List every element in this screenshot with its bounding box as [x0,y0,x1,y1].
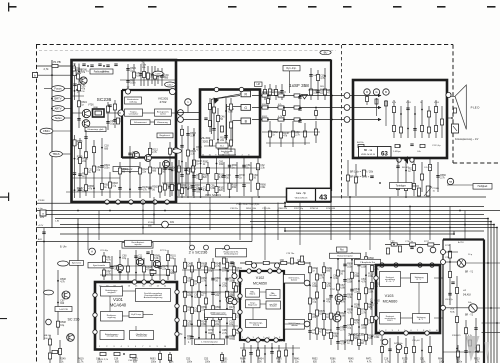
svg-text:A-718: A-718 [458,241,464,244]
svg-text:C25: C25 [168,359,173,361]
oval C317 [165,82,176,87]
svg-text:Schwarzwert: Schwarzwert [134,121,147,124]
component column DE-4 [205,262,207,340]
function box Reaktanzregelung [101,312,123,322]
svg-text:C18 22n: C18 22n [230,208,239,210]
component cluster F top band [385,244,440,246]
svg-text:R952: R952 [312,359,318,361]
svg-text:Klemmung: Klemmung [157,122,168,124]
component cluster left of E [221,352,223,363]
svg-text:R323: R323 [474,359,480,361]
bus jog 1 [284,203,286,207]
svg-text:150k: 150k [374,337,380,339]
svg-text:390R: 390R [320,89,325,91]
component cluster A corner [73,66,76,71]
svg-text:Klemmimp. glob: Klemmimp. glob [88,129,104,131]
component cluster below B [164,160,166,196]
wire left lower vertical [43,228,45,340]
svg-text:R311: R311 [262,104,268,106]
svg-text:P LE D: P LE D [471,106,480,110]
svg-text:C18 µ10: C18 µ10 [412,340,420,342]
label box Helligkeit [473,184,492,190]
component cluster A top-left [74,64,76,101]
IC block output stage [443,238,484,240]
component cluster A mid [107,102,109,130]
capacitor pair left margin [42,231,45,233]
component column DE-8 [233,262,235,340]
amplifier box B [241,118,251,124]
svg-text:Matrix: Matrix [250,293,257,296]
component cluster A bottom [119,162,121,198]
border tick marks top [8,6,17,8]
svg-text:C53: C53 [204,359,209,361]
svg-text:R8 1,2k: R8 1,2k [278,341,286,343]
svg-text:L58 4,7µ: L58 4,7µ [445,299,454,301]
function box Verzoegerung [246,320,267,328]
svg-text:(3xSAY32): (3xSAY32) [370,298,373,310]
svg-text:MCA660: MCA660 [383,300,398,304]
svg-text:1xSF 358: 1xSF 358 [289,83,309,88]
component cluster A lower-left [74,135,76,198]
svg-text:FB41: FB41 [43,129,50,133]
svg-text:R175: R175 [402,359,408,361]
svg-text:R767 10µ: R767 10µ [294,208,304,210]
svg-text:R - G - Y: R - G - Y [386,281,395,283]
function box Verzoegerung R-Y [411,274,428,283]
wire gap vertical [187,105,189,112]
svg-text:R360 820: R360 820 [278,208,288,210]
node pins G left [441,250,446,255]
amplifier box R [241,91,251,97]
svg-text:V101: V101 [113,297,123,302]
svg-text:C81: C81 [420,359,425,361]
terminal oval BRTV [52,96,65,102]
svg-text:C60: C60 [280,260,285,262]
IC block V103 MCA660 [376,265,440,333]
wire A-B link1 [176,112,200,114]
svg-text:CYBD 7096 P7096 (P)96: CYBD 7096 P7096 (P)96 [236,204,260,206]
component cluster above E [240,262,310,264]
wire C interior B [353,119,381,121]
component cluster below C [397,158,399,196]
svg-text:63: 63 [381,151,388,158]
wire loops box B [210,99,212,134]
node pins E top [247,269,251,273]
svg-text:Austastverzögerung: Austastverzögerung [144,296,163,299]
node circle G line [344,105,350,111]
resistor P1-PB 2,7k [52,64,58,67]
IC block VIC301 sub-block [122,89,176,91]
svg-text:3201: 3201 [202,140,209,144]
node circle L1 [185,99,192,106]
component group G line [262,106,268,109]
node oval lower-left [44,290,54,295]
svg-text:10µ: 10µ [110,124,115,126]
svg-text:10µ: 10µ [112,186,117,188]
svg-text:1. Klemmimpulse: 1. Klemmimpulse [201,341,219,343]
amplifier box Kontrasteinstellung [125,97,142,104]
label box Regenerierte [216,249,247,257]
svg-text:R-B-Y: R-B-Y [387,320,393,322]
svg-text:BR - Y1: BR - Y1 [465,272,474,274]
svg-text:150k: 150k [368,291,374,293]
transistor EF upper [335,294,343,302]
svg-text:verstärker: verstärker [129,112,139,115]
svg-text:+12V: +12V [38,225,44,227]
function box H-V Schalter [266,301,281,309]
component small right of C [446,92,451,97]
potentiometer P7080 [426,186,430,196]
svg-text:Tonträger: Tonträger [396,184,406,187]
component column EF-3 [351,252,353,345]
svg-text:impulse: impulse [135,244,143,246]
function box 64us [246,300,261,308]
bus line 10 [60,233,454,235]
svg-text:R545: R545 [348,359,354,361]
function box Betriebsspg-vergleich [101,287,123,297]
svg-text:10µ: 10µ [60,325,65,327]
svg-text:2,7k: 2,7k [44,67,50,71]
node pins D top edge [132,280,136,284]
wire thick top rail [72,59,332,61]
diode circle D31 [162,221,169,228]
svg-text:D31: D31 [170,222,175,224]
junction dots buses [77,227,79,229]
component column DE-7 [226,258,228,345]
section divider dashed [341,45,343,200]
transistor G lower [469,304,477,312]
svg-text:43: 43 [319,192,327,201]
svg-text:P7098: P7098 [38,200,45,202]
svg-text:R619: R619 [78,359,84,361]
svg-text:R717: R717 [424,241,430,243]
junction left [51,74,53,76]
node pins F top [380,263,384,267]
component column EF-2 [344,258,346,350]
svg-text:150k: 150k [260,187,266,189]
function box Phasenvergleich [130,331,154,340]
svg-text:MCA640: MCA640 [110,303,127,308]
node circle pin 27 [125,89,130,94]
svg-text:stellung: stellung [129,100,137,103]
svg-text:R101: R101 [222,359,228,361]
component cluster right of E [309,262,311,340]
terminal oval ARTV [52,106,65,112]
amplifier box G [241,105,251,111]
svg-text:Horizont.Impulse: Horizont.Impulse [337,255,353,258]
component column DE-2 [191,262,193,345]
svg-text:Rot: Rot [340,248,344,251]
node circle pin row1 [178,110,184,116]
svg-text:Gate - 5p: Gate - 5p [296,192,307,195]
svg-text:Vertikalablenkung: Vertikalablenkung [211,313,227,316]
svg-text:V103: V103 [385,294,394,298]
IC block V101 MCA640 [95,282,177,350]
component column DE-5 [212,258,214,345]
IC small dark block RB8 [93,109,105,117]
wire D interior links [123,290,136,292]
svg-text:MCA650: MCA650 [253,282,267,286]
svg-text:B4-5Ta: B4-5Ta [357,142,364,144]
bus line 1 [36,202,286,204]
function box PAL-Schalter [266,290,280,299]
connector rect left margin [40,210,46,216]
svg-text:R: R [366,90,368,94]
svg-text:C317: C317 [167,85,173,87]
svg-text:R118 470: R118 470 [452,335,461,337]
wire left stub1 [44,88,52,90]
label box LM0 [255,82,263,86]
function box H-uP-Loop [129,312,143,318]
svg-text:VER6.2b-V3.30: VER6.2b-V3.30 [361,154,376,156]
component cluster top mid [143,63,145,86]
wire A2 row2 [150,121,155,123]
svg-text:R656: R656 [276,359,282,361]
node pins A bottom edge [105,200,109,204]
svg-text:C74 1,4µ: C74 1,4µ [432,145,441,147]
wire rows DE [182,269,238,271]
svg-text:10µ: 10µ [96,170,101,172]
wire F to G links [440,277,443,279]
node pins B top edge [214,87,218,91]
function box Impulsaufbereitung [136,289,171,302]
svg-text:RG 67k: RG 67k [402,167,410,169]
svg-text:R - Y: R - Y [417,279,422,281]
terminal oval Tiefen [52,115,65,121]
svg-text:R4n: R4n [468,302,472,304]
svg-text:R730 680: R730 680 [326,208,336,210]
svg-text:C4 47n: C4 47n [424,167,432,169]
terminal oval TBAS [50,151,63,157]
svg-text:BRTV: BRTV [54,97,61,101]
svg-text:R471: R471 [366,359,372,361]
svg-text:R312: R312 [262,116,268,118]
svg-text:R989: R989 [132,359,138,361]
svg-text:B - Y: B - Y [419,319,424,321]
svg-text:Begrenzer: Begrenzer [248,304,258,306]
svg-text:R47 100n: R47 100n [394,343,403,345]
svg-text:100n: 100n [160,77,166,79]
svg-text:Schalter: Schalter [270,305,278,308]
type box BR-1a 63 [359,147,392,158]
node circles DE column tops [190,245,195,250]
svg-text:Synchronide: Synchronide [93,264,106,267]
component column DE-6 [219,262,221,340]
component column EF-5 [365,252,367,345]
svg-text:R434: R434 [258,359,264,361]
bus line 9 [285,230,484,232]
terminal oval Focus [52,86,65,92]
component column EF-1 [337,252,339,350]
amplifier box Bezugswertwerter [155,109,172,116]
wire C interior G [353,107,381,109]
IC block VIL302 RGB stage [200,90,260,158]
label box Farbtongamma [90,69,113,74]
svg-text:C32: C32 [390,241,395,243]
svg-text:R804: R804 [240,359,246,361]
transistor bottom-left [67,334,75,342]
svg-text:R841: R841 [294,359,300,361]
component cluster above D [103,252,105,280]
wire rail 197 [176,196,287,198]
svg-text:C18: C18 [384,359,389,361]
svg-text:dulator: dulator [291,279,298,282]
node pin C bottom [397,158,401,162]
node circles RGB top labels [364,89,370,95]
sheet border dashed left [36,45,38,363]
svg-text:R730 56: R730 56 [310,208,319,210]
label box Tontraeger [390,183,413,189]
svg-text:HA: HA [449,181,453,184]
transistor DE [226,296,234,304]
svg-text:3 x SC236: 3 x SC236 [348,333,364,337]
wire A2 row1 [106,112,121,114]
svg-text:verzögerung: verzögerung [106,336,117,338]
node pins D right edge [175,290,179,294]
label box Bildstoer [113,167,139,172]
component cluster below D [100,352,106,355]
sheet border dashed right upper [452,45,454,164]
transistor G upper [457,259,465,267]
type box Gate-5p 43 [287,188,332,201]
shadow wedge bottom-right [466,336,480,362]
function box IF-Demod-2 [285,320,305,330]
bus jog 3 [453,231,455,234]
sheet border dashed stub right [453,162,500,164]
node circle A2 input [118,110,124,116]
svg-text:1-690µs: 1-690µs [393,151,401,153]
component cluster below RGB lines [269,121,271,147]
node pins F left [374,276,378,280]
IC block SC236 luminance stage [72,60,177,202]
wire right margin stubs [484,262,500,264]
svg-text:KDA: KDA [450,311,455,314]
svg-text:vergleich: vergleich [107,291,116,294]
svg-text:C297: C297 [155,74,161,76]
wire row below B [162,167,260,169]
label box Klemmimpulse [195,339,225,344]
svg-text:G: G [375,90,377,94]
function box PAL-Matrix [246,289,260,298]
svg-text:Fokusspannung ~ 1/V: Fokusspannung ~ 1/V [455,138,479,141]
terminal oval BU at rail corner [320,50,331,54]
svg-text:10µ: 10µ [347,328,352,330]
component cluster box B interior [209,98,211,132]
label box Dyn-Imp [283,66,300,71]
label box Betriebsspannung [122,243,153,249]
svg-text:V705: V705 [406,102,412,104]
function box IF-Demod-1 [284,275,305,284]
label box Burst-Austast [125,240,152,246]
svg-text:V737: V737 [330,289,336,291]
bus line 6 [250,221,491,223]
amplifier box Schwarzwert [131,120,151,125]
junction dots rail197 [200,196,202,198]
svg-text:P1 PB: P1 PB [53,60,61,64]
svg-text:10µ: 10µ [122,258,127,260]
svg-text:R310: R310 [262,92,268,94]
svg-text:SC 236: SC 236 [68,318,80,322]
inner faint dashed line [39,49,336,51]
node circle R line [344,93,350,99]
svg-text:1xSC239: 1xSC239 [59,309,68,311]
label box Klemmimp [85,127,106,132]
component box LED [452,124,459,133]
component cluster below F [381,336,383,363]
svg-text:B. Uhr: B. Uhr [60,246,67,249]
component cluster SF358 [264,85,266,100]
component drops RGB [267,96,269,108]
svg-text:R693: R693 [150,359,156,361]
svg-text:Schalter: Schalter [269,294,277,297]
svg-text:R77 1k: R77 1k [160,250,168,252]
bus line 5 [55,218,488,220]
svg-text:10µ: 10µ [229,324,234,326]
wire arrow into R amp [211,94,241,100]
vertical stubs through buses [77,219,79,363]
svg-text:VID2.05/60.05: VID2.05/60.05 [295,198,309,200]
node pins F bottom [380,331,384,335]
component cluster A top [127,64,129,88]
bus line 7 [60,224,494,226]
ground symbol SF [302,95,308,100]
svg-text:10µ: 10µ [170,258,175,260]
component extra box B [230,98,232,152]
svg-text:R656 150k: R656 150k [246,208,257,210]
component extra above D [117,265,124,272]
label box Sandcastle [88,263,110,268]
svg-text:Tiefen: Tiefen [54,116,62,120]
component column DE-3 [198,258,200,345]
transistor EF lower [333,314,341,322]
svg-text:ARTV: ARTV [54,107,61,111]
svg-text:C46: C46 [96,359,101,361]
svg-text:+A: +A [463,289,466,292]
component row C bottom [358,144,364,147]
wire G signal line [252,107,353,109]
bus line 2 [285,206,484,208]
svg-text:R841: R841 [438,359,444,361]
border tick mark left lower [0,318,7,319]
node pins E bottom [246,338,250,342]
svg-text:werter: werter [160,112,166,115]
svg-text:10µ: 10µ [312,302,317,304]
svg-text:TBAS: TBAS [52,152,59,156]
svg-text:150k: 150k [368,276,374,278]
svg-text:V102: V102 [256,276,264,280]
wire stubs right corner [482,322,500,324]
wire heli link [447,184,473,186]
component cluster G interior [449,244,451,305]
component cluster gap A-B [181,125,183,198]
border tick mark left middle [0,197,9,198]
connector pin b [33,73,38,78]
component cluster below E [243,343,245,363]
wire E interior [260,291,266,293]
svg-text:54L418: 54L418 [463,295,471,297]
function box Kontrast-verst [380,313,401,325]
node circle pin row2 [178,117,184,123]
svg-text:Dyn.-Imp.: Dyn.-Imp. [287,68,297,70]
wire LED links [447,95,455,97]
transistor upper-left [80,77,87,84]
svg-text:C39: C39 [114,359,119,361]
indicator triangle LED [455,85,466,129]
function box Betriebsspannungsverz [100,331,124,340]
svg-text:P Amplitude Rot: P Amplitude Rot [360,261,375,264]
svg-text:100n: 100n [104,168,110,170]
svg-text:Vertikalimpulse: Vertikalimpulse [224,252,239,255]
